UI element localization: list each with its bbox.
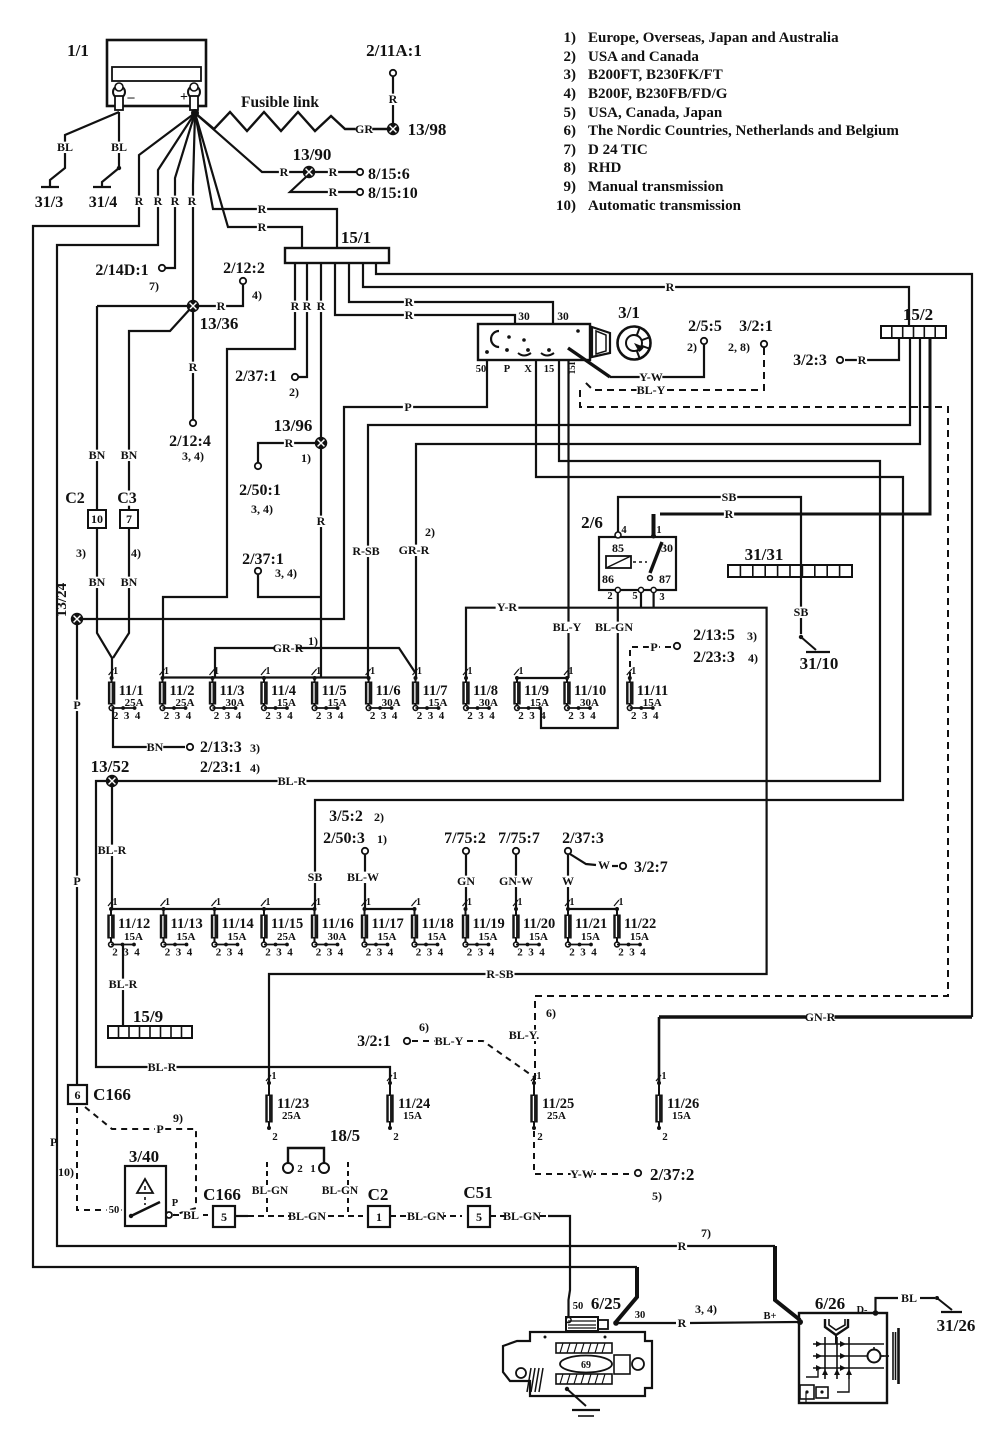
svg-text:5): 5)	[652, 1189, 662, 1203]
svg-text:1/1: 1/1	[67, 41, 89, 60]
svg-text:3: 3	[381, 710, 387, 722]
svg-text:30: 30	[518, 311, 530, 323]
svg-text:3, 4): 3, 4)	[695, 1302, 717, 1316]
svg-text:R: R	[217, 299, 226, 313]
svg-text:7: 7	[126, 512, 132, 526]
svg-text:4: 4	[187, 947, 193, 959]
svg-text:15: 15	[544, 364, 555, 375]
svg-text:3: 3	[227, 947, 233, 959]
svg-text:Manual transmission: Manual transmission	[588, 179, 724, 195]
svg-text:R: R	[389, 92, 398, 106]
svg-text:2/13:5: 2/13:5	[693, 627, 735, 644]
svg-text:13/52: 13/52	[91, 757, 130, 776]
svg-text:11/13: 11/13	[171, 916, 203, 932]
svg-text:5: 5	[476, 1210, 482, 1224]
svg-text:2: 2	[316, 710, 322, 722]
svg-text:1): 1)	[377, 832, 387, 846]
svg-text:15A: 15A	[529, 931, 548, 943]
svg-text:C2: C2	[368, 1185, 389, 1204]
svg-text:50: 50	[476, 364, 487, 375]
svg-text:13/98: 13/98	[408, 120, 447, 139]
svg-text:R: R	[317, 514, 326, 528]
svg-text:2/14D:1: 2/14D:1	[95, 262, 148, 279]
svg-text:10): 10)	[58, 1165, 74, 1179]
svg-text:15A: 15A	[643, 697, 662, 709]
svg-text:2): 2)	[564, 49, 577, 65]
svg-text:4: 4	[591, 947, 597, 959]
svg-text:15A: 15A	[124, 931, 143, 943]
svg-text:30A: 30A	[382, 697, 401, 709]
svg-text:3: 3	[478, 710, 484, 722]
svg-text:2/23:3: 2/23:3	[693, 649, 735, 666]
svg-text:3: 3	[175, 710, 181, 722]
svg-text:1: 1	[569, 666, 574, 677]
svg-text:BN: BN	[147, 740, 164, 754]
svg-text:30: 30	[661, 541, 673, 555]
svg-text:2: 2	[618, 947, 624, 959]
svg-text:1: 1	[165, 897, 170, 908]
svg-text:2: 2	[631, 710, 637, 722]
svg-text:15A: 15A	[177, 931, 196, 943]
svg-text:P: P	[50, 1135, 57, 1149]
svg-text:2, 8): 2, 8)	[728, 340, 750, 354]
svg-text:2: 2	[467, 710, 473, 722]
svg-text:GR: GR	[355, 122, 373, 136]
svg-text:2: 2	[417, 710, 423, 722]
svg-text:25A: 25A	[176, 697, 195, 709]
svg-text:15A: 15A	[378, 931, 397, 943]
svg-text:15A: 15A	[530, 697, 549, 709]
svg-text:R: R	[405, 295, 414, 309]
svg-text:1: 1	[468, 666, 473, 677]
svg-text:1: 1	[417, 666, 422, 677]
svg-text:4: 4	[287, 947, 293, 959]
svg-text:4: 4	[489, 947, 495, 959]
svg-text:GR-R: GR-R	[399, 543, 430, 557]
svg-text:6): 6)	[564, 123, 577, 139]
svg-text:2/50:3: 2/50:3	[323, 830, 365, 847]
svg-text:6: 6	[75, 1088, 81, 1102]
svg-text:30A: 30A	[328, 931, 347, 943]
svg-text:1: 1	[656, 525, 661, 536]
svg-text:3/2:7: 3/2:7	[634, 859, 668, 876]
svg-text:R: R	[725, 507, 734, 521]
svg-text:2: 2	[165, 947, 171, 959]
svg-text:11/19: 11/19	[473, 916, 505, 932]
svg-text:B200F, B230FB/FD/G: B200F, B230FB/FD/G	[588, 86, 728, 102]
svg-text:2: 2	[272, 1131, 278, 1143]
svg-text:4: 4	[590, 710, 596, 722]
svg-text:4: 4	[540, 710, 546, 722]
svg-text:15A: 15A	[403, 1110, 422, 1122]
svg-text:R: R	[189, 360, 198, 374]
svg-text:3/2:1: 3/2:1	[357, 1033, 391, 1050]
svg-text:3: 3	[529, 710, 535, 722]
svg-text:C3: C3	[117, 490, 137, 507]
svg-text:BL-GN: BL-GN	[503, 1209, 541, 1223]
svg-text:W: W	[598, 858, 610, 872]
svg-text:15/2: 15/2	[903, 305, 933, 324]
svg-text:BL: BL	[183, 1208, 199, 1222]
svg-text:2: 2	[393, 1131, 399, 1143]
svg-text:W: W	[562, 874, 574, 888]
svg-text:1): 1)	[564, 30, 577, 46]
svg-text:2: 2	[366, 947, 372, 959]
svg-text:8/15:10: 8/15:10	[368, 185, 418, 202]
svg-text:31/26: 31/26	[937, 1316, 976, 1335]
svg-text:BL: BL	[901, 1291, 917, 1305]
svg-text:4: 4	[621, 525, 627, 536]
svg-text:3): 3)	[747, 629, 757, 643]
svg-text:11/22: 11/22	[624, 916, 656, 932]
svg-text:15A: 15A	[429, 697, 448, 709]
svg-text:R: R	[678, 1316, 687, 1330]
svg-text:The Nordic Countries, Netherla: The Nordic Countries, Netherlands and Be…	[588, 123, 899, 139]
svg-text:50: 50	[573, 1301, 584, 1312]
svg-text:2: 2	[607, 591, 612, 602]
svg-text:1: 1	[467, 897, 472, 908]
svg-text:GN: GN	[457, 874, 475, 888]
svg-text:P: P	[172, 1198, 179, 1209]
svg-text:50: 50	[109, 1205, 120, 1216]
svg-text:31/3: 31/3	[35, 194, 63, 211]
svg-text:R: R	[171, 194, 180, 208]
svg-text:3): 3)	[564, 67, 577, 83]
svg-text:4): 4)	[250, 761, 260, 775]
svg-text:4): 4)	[748, 651, 758, 665]
svg-text:30A: 30A	[580, 697, 599, 709]
svg-text:3: 3	[580, 947, 586, 959]
svg-text:C51: C51	[463, 1183, 492, 1202]
svg-text:3: 3	[579, 710, 585, 722]
svg-text:31/4: 31/4	[89, 194, 117, 211]
svg-text:10): 10)	[556, 198, 576, 214]
svg-text:4: 4	[134, 947, 140, 959]
svg-text:BL-Y: BL-Y	[637, 383, 666, 397]
svg-text:R: R	[258, 220, 267, 234]
svg-text:3: 3	[478, 947, 484, 959]
svg-text:P: P	[504, 364, 511, 375]
svg-text:R: R	[280, 165, 289, 179]
svg-text:8/15:6: 8/15:6	[368, 166, 410, 183]
svg-text:C166: C166	[203, 1185, 241, 1204]
svg-text:85: 85	[612, 541, 624, 555]
svg-text:P: P	[73, 698, 80, 712]
svg-text:D 24 TIC: D 24 TIC	[588, 142, 648, 158]
svg-text:11/16: 11/16	[322, 916, 354, 932]
svg-text:SB: SB	[794, 605, 809, 619]
svg-text:2/37:1: 2/37:1	[235, 368, 277, 385]
svg-text:2: 2	[537, 1131, 543, 1143]
svg-text:R: R	[135, 194, 144, 208]
svg-text:BL-GN: BL-GN	[595, 620, 633, 634]
svg-text:3: 3	[629, 947, 635, 959]
svg-text:3: 3	[225, 710, 231, 722]
svg-text:8): 8)	[564, 160, 577, 176]
svg-text:1: 1	[662, 1071, 667, 1082]
svg-text:1: 1	[113, 666, 118, 677]
svg-text:USA and Canada: USA and Canada	[588, 49, 699, 65]
svg-text:R: R	[329, 185, 338, 199]
svg-text:3: 3	[377, 947, 383, 959]
svg-text:R-SB: R-SB	[486, 967, 513, 981]
svg-text:BL-Y.: BL-Y.	[509, 1028, 540, 1042]
svg-text:11/14: 11/14	[222, 916, 254, 932]
svg-text:31/31: 31/31	[745, 545, 784, 564]
svg-text:BL: BL	[57, 140, 73, 154]
svg-text:6/26: 6/26	[815, 1294, 845, 1313]
svg-text:R: R	[678, 1239, 687, 1253]
svg-text:P: P	[404, 400, 411, 414]
svg-text:1: 1	[570, 897, 575, 908]
svg-text:R: R	[154, 194, 163, 208]
svg-text:4: 4	[392, 710, 398, 722]
svg-text:3, 4): 3, 4)	[182, 449, 204, 463]
svg-text:SB: SB	[308, 870, 323, 884]
svg-text:BL-R: BL-R	[98, 843, 127, 857]
svg-text:1: 1	[518, 897, 523, 908]
svg-text:2: 2	[416, 947, 422, 959]
svg-text:C2: C2	[65, 490, 85, 507]
svg-text:2: 2	[112, 947, 118, 959]
svg-text:D-: D-	[856, 1305, 868, 1316]
svg-text:6): 6)	[419, 1020, 429, 1034]
svg-text:69: 69	[581, 1360, 591, 1371]
svg-text:BL-W: BL-W	[347, 870, 379, 884]
svg-text:2/6: 2/6	[581, 513, 603, 532]
svg-text:1: 1	[164, 666, 169, 677]
svg-text:1): 1)	[308, 634, 318, 648]
svg-text:4): 4)	[131, 546, 141, 560]
svg-text:BL-GN: BL-GN	[288, 1209, 326, 1223]
svg-text:3: 3	[427, 947, 433, 959]
svg-text:1: 1	[266, 897, 271, 908]
svg-text:RHD: RHD	[588, 160, 622, 176]
svg-text:2: 2	[370, 710, 376, 722]
svg-text:BL-R: BL-R	[109, 977, 138, 991]
svg-text:Europe, Overseas, Japan and Au: Europe, Overseas, Japan and Australia	[588, 30, 839, 46]
svg-text:7): 7)	[149, 279, 159, 293]
svg-text:3: 3	[528, 947, 534, 959]
svg-text:2: 2	[568, 710, 574, 722]
svg-text:B200FT, B230FK/FT: B200FT, B230FK/FT	[588, 67, 723, 83]
svg-text:R: R	[188, 194, 197, 208]
svg-text:11/15: 11/15	[271, 916, 303, 932]
svg-text:Y-W: Y-W	[570, 1167, 594, 1181]
svg-text:2: 2	[467, 947, 473, 959]
svg-text:BL-GN: BL-GN	[252, 1185, 289, 1197]
svg-text:X: X	[524, 364, 532, 375]
svg-text:15/9: 15/9	[133, 1007, 163, 1026]
svg-text:4: 4	[438, 947, 444, 959]
svg-text:R: R	[666, 280, 675, 294]
svg-text:3, 4): 3, 4)	[251, 502, 273, 516]
svg-text:4: 4	[489, 710, 495, 722]
svg-text:3/5:2: 3/5:2	[329, 808, 363, 825]
svg-text:1: 1	[266, 666, 271, 677]
svg-text:3: 3	[642, 710, 648, 722]
svg-text:3: 3	[276, 947, 282, 959]
svg-text:1: 1	[519, 666, 524, 677]
svg-text:R-SB: R-SB	[352, 544, 379, 558]
svg-text:Automatic transmission: Automatic transmission	[588, 198, 742, 214]
svg-text:11/20: 11/20	[523, 916, 555, 932]
svg-text:2/11A:1: 2/11A:1	[366, 41, 422, 60]
svg-text:4: 4	[238, 947, 244, 959]
svg-text:1: 1	[416, 897, 421, 908]
svg-text:2/12:4: 2/12:4	[169, 433, 211, 450]
svg-text:13/96: 13/96	[274, 416, 313, 435]
svg-text:2/50:1: 2/50:1	[239, 482, 281, 499]
svg-text:BL-R: BL-R	[278, 774, 307, 788]
svg-text:1: 1	[631, 666, 636, 677]
svg-text:15A: 15A	[328, 697, 347, 709]
svg-text:BN: BN	[89, 575, 106, 589]
svg-text:BL: BL	[111, 140, 127, 154]
svg-text:2/37:2: 2/37:2	[650, 1165, 694, 1184]
svg-text:SB: SB	[722, 490, 737, 504]
svg-text:4: 4	[186, 710, 192, 722]
svg-text:7): 7)	[701, 1226, 711, 1240]
svg-text:GN-R: GN-R	[805, 1010, 836, 1024]
svg-text:18/5: 18/5	[330, 1126, 360, 1145]
svg-text:5: 5	[221, 1210, 227, 1224]
svg-text:BN: BN	[89, 448, 106, 462]
svg-text:2/5:5: 2/5:5	[688, 318, 722, 335]
svg-text:3: 3	[124, 710, 130, 722]
svg-text:1: 1	[537, 1071, 542, 1082]
svg-text:15A: 15A	[581, 931, 600, 943]
svg-text:2: 2	[517, 947, 523, 959]
svg-text:15A: 15A	[428, 931, 447, 943]
svg-text:3: 3	[123, 947, 129, 959]
svg-text:15/1: 15/1	[341, 228, 371, 247]
svg-text:25A: 25A	[547, 1110, 566, 1122]
svg-text:5): 5)	[564, 105, 577, 121]
svg-text:2: 2	[265, 710, 271, 722]
svg-text:1: 1	[216, 897, 221, 908]
svg-text:2: 2	[216, 947, 222, 959]
svg-text:GN-W: GN-W	[499, 874, 533, 888]
svg-text:BN: BN	[121, 448, 138, 462]
svg-text:2: 2	[569, 947, 575, 959]
svg-text:1: 1	[316, 666, 321, 677]
svg-text:1): 1)	[301, 451, 311, 465]
svg-text:1: 1	[393, 1071, 398, 1082]
svg-text:2: 2	[316, 947, 322, 959]
svg-text:31/10: 31/10	[800, 654, 839, 673]
svg-text:4: 4	[439, 710, 445, 722]
svg-text:3: 3	[276, 710, 282, 722]
svg-text:1: 1	[370, 666, 375, 677]
svg-text:BN: BN	[121, 575, 138, 589]
svg-text:BL-GN: BL-GN	[407, 1209, 445, 1223]
svg-text:Y-W: Y-W	[639, 370, 663, 384]
svg-text:9): 9)	[564, 179, 577, 195]
svg-text:USA, Canada, Japan: USA, Canada, Japan	[588, 105, 723, 121]
svg-text:4): 4)	[252, 288, 262, 302]
svg-text:5: 5	[632, 591, 637, 602]
svg-text:7/75:2: 7/75:2	[444, 830, 486, 847]
svg-text:4: 4	[539, 947, 545, 959]
svg-text:6/25: 6/25	[591, 1294, 621, 1313]
svg-text:25A: 25A	[125, 697, 144, 709]
svg-text:15A: 15A	[228, 931, 247, 943]
svg-text:BL-Y: BL-Y	[553, 620, 582, 634]
svg-text:2/23:1: 2/23:1	[200, 759, 242, 776]
svg-text:1: 1	[316, 897, 321, 908]
svg-text:1: 1	[376, 1210, 382, 1224]
svg-text:2: 2	[662, 1131, 668, 1143]
svg-text:R: R	[303, 299, 312, 313]
svg-text:3: 3	[327, 710, 333, 722]
svg-text:BL-Y: BL-Y	[435, 1034, 464, 1048]
svg-text:B+: B+	[764, 1311, 777, 1322]
svg-text:BL-GN: BL-GN	[322, 1185, 359, 1197]
svg-text:4: 4	[338, 947, 344, 959]
svg-text:30A: 30A	[226, 697, 245, 709]
svg-text:30: 30	[635, 1310, 646, 1321]
svg-text:13/24: 13/24	[54, 582, 70, 617]
svg-text:1: 1	[310, 1163, 316, 1175]
svg-text:3: 3	[428, 710, 434, 722]
svg-text:3/40: 3/40	[129, 1147, 159, 1166]
svg-text:Y-R: Y-R	[497, 600, 518, 614]
svg-text:3/2:1: 3/2:1	[739, 318, 773, 335]
svg-text:4: 4	[135, 710, 141, 722]
svg-text:3): 3)	[250, 741, 260, 755]
svg-text:2: 2	[297, 1163, 303, 1175]
svg-text:R: R	[285, 436, 294, 450]
svg-text:6): 6)	[546, 1006, 556, 1020]
svg-text:C166: C166	[93, 1085, 131, 1104]
svg-text:1: 1	[113, 897, 118, 908]
svg-text:10: 10	[91, 512, 103, 526]
svg-text:3, 4): 3, 4)	[275, 566, 297, 580]
svg-text:–: –	[127, 90, 136, 105]
svg-text:R: R	[858, 353, 867, 367]
svg-text:Fusible link: Fusible link	[241, 94, 319, 111]
svg-text:4: 4	[287, 710, 293, 722]
svg-text:4: 4	[236, 710, 242, 722]
svg-text:25A: 25A	[277, 931, 296, 943]
svg-text:R: R	[317, 299, 326, 313]
svg-text:3: 3	[176, 947, 182, 959]
svg-text:2): 2)	[425, 525, 435, 539]
svg-text:3): 3)	[76, 546, 86, 560]
svg-text:11/12: 11/12	[118, 916, 150, 932]
svg-text:P: P	[650, 640, 657, 654]
svg-text:2): 2)	[374, 810, 384, 824]
svg-text:4: 4	[653, 710, 659, 722]
svg-text:1: 1	[619, 897, 624, 908]
svg-text:4: 4	[338, 710, 344, 722]
svg-text:3/2:3: 3/2:3	[793, 352, 827, 369]
svg-text:11/18: 11/18	[422, 916, 454, 932]
svg-text:BL-R: BL-R	[148, 1060, 177, 1074]
svg-text:4: 4	[388, 947, 394, 959]
svg-text:87: 87	[659, 572, 671, 586]
svg-text:+: +	[180, 90, 188, 105]
svg-text:P: P	[73, 874, 80, 888]
svg-text:R: R	[291, 299, 300, 313]
svg-text:2: 2	[214, 710, 220, 722]
svg-text:1: 1	[272, 1071, 277, 1082]
svg-text:P: P	[156, 1122, 163, 1136]
svg-text:15A: 15A	[479, 931, 498, 943]
svg-text:15A: 15A	[277, 697, 296, 709]
svg-text:7): 7)	[564, 142, 577, 158]
